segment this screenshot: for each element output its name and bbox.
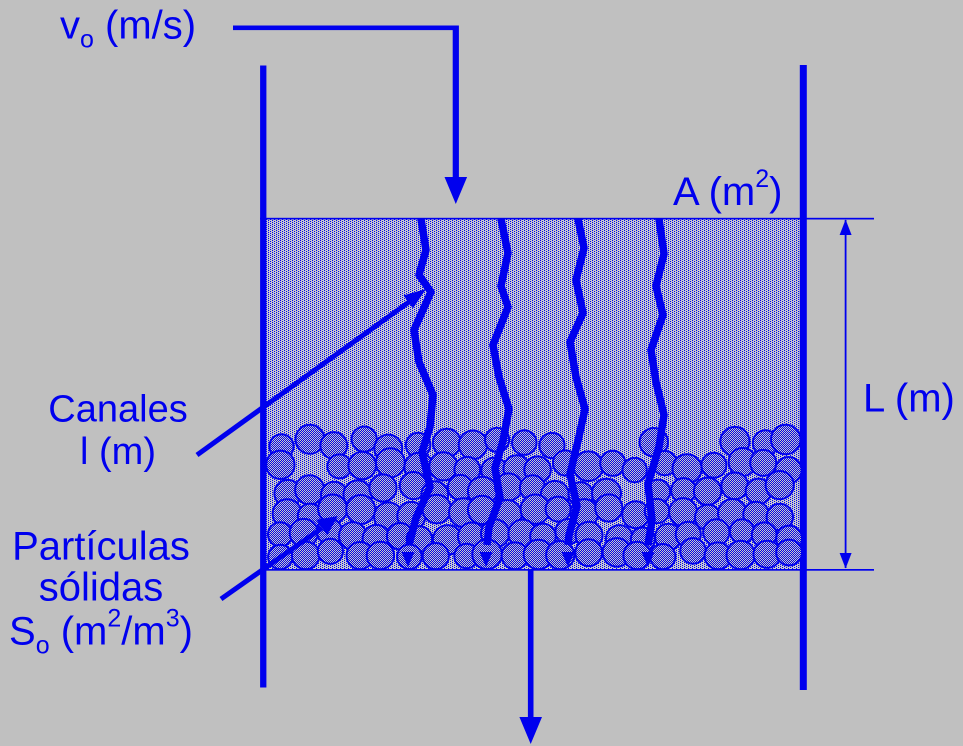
svg-text:L (m): L (m) [863, 377, 955, 421]
outflow arrowhead [519, 717, 542, 744]
right wall [800, 65, 807, 690]
inflow arrowhead [445, 177, 468, 204]
svg-text:l (m): l (m) [80, 431, 156, 473]
svg-text:Partículas: Partículas [12, 524, 190, 568]
particulas arrow wire [221, 528, 322, 599]
bed bottom line [260, 569, 874, 571]
inflow wire vertical [453, 26, 459, 181]
inflow wire horizontal [233, 26, 458, 31]
svg-text:Canales: Canales [48, 389, 187, 431]
particulas arrowhead [316, 516, 338, 535]
channel 4 [648, 219, 664, 545]
particles [269, 434, 293, 458]
left wall [260, 66, 266, 688]
canales arrow wire [197, 302, 409, 455]
dimension line L [845, 220, 847, 568]
packed bed fill [266, 219, 800, 569]
svg-text:sólidas: sólidas [39, 566, 164, 610]
channel 1 [409, 219, 433, 545]
canales arrowhead [404, 289, 427, 308]
channel 3 [568, 219, 585, 545]
outflow wire [528, 569, 534, 718]
channel 2 [487, 219, 509, 545]
dimension arrowhead bottom [840, 553, 852, 569]
dimension arrowhead top [840, 220, 852, 236]
bed top line [260, 218, 874, 220]
